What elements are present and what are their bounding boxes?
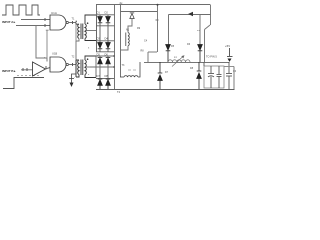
wire gate1 output bbox=[69, 22, 76, 24]
winding bottom lead bbox=[120, 46, 128, 50]
waveform input A bbox=[2, 5, 40, 15]
svg-text:INPUT B ▸: INPUT B ▸ bbox=[2, 69, 16, 73]
main output line y62 bbox=[144, 62, 230, 64]
vertical x168 bbox=[168, 15, 170, 48]
buffer output wire bbox=[46, 68, 51, 70]
wire y12 bbox=[121, 11, 158, 13]
top rail right corner bbox=[210, 5, 212, 26]
vertical x204 top bbox=[203, 62, 205, 66]
diode D11 bbox=[98, 58, 103, 64]
T2 center tap stub bbox=[87, 66, 97, 68]
rail x96 bbox=[96, 15, 98, 52]
T2 pin dots bbox=[76, 63, 77, 64]
row2 lower stubs bbox=[100, 49, 108, 52]
cap C2 bbox=[217, 66, 222, 88]
right edge vertical bbox=[233, 67, 235, 90]
transformer T1 bbox=[76, 15, 96, 41]
tick atop x47 wire bbox=[46, 29, 49, 31]
vertical x200 bbox=[199, 15, 201, 48]
T2 phasing dot bbox=[87, 58, 89, 60]
bottom bridge wires row1 bbox=[90, 56, 114, 79]
bridge lower wire bbox=[96, 51, 115, 53]
U1B output bubble bbox=[66, 63, 68, 65]
rail x204 down to box bbox=[204, 30, 206, 63]
svg-text:D8: D8 bbox=[105, 74, 109, 78]
diode D6 dark bbox=[198, 45, 203, 63]
svg-text:INPUT A ▸: INPUT A ▸ bbox=[2, 20, 16, 24]
T1 center tap stub bbox=[87, 30, 97, 32]
freewheel diode D7 bbox=[158, 62, 163, 89]
connector line right bbox=[224, 66, 234, 68]
svg-text:U1A: U1A bbox=[51, 11, 57, 15]
buffer U2 triangle bbox=[33, 62, 46, 76]
wire gate2 output bbox=[69, 64, 76, 66]
bridge mid wire bbox=[96, 25, 115, 27]
bridge wire row2 bbox=[96, 40, 115, 42]
inductor arrow bbox=[172, 56, 184, 67]
svg-text:U1B: U1B bbox=[52, 52, 57, 56]
vertical wire x47 from above bbox=[46, 30, 48, 58]
tick pin4 bbox=[72, 63, 74, 66]
bridge top wire row1 bbox=[96, 14, 115, 16]
T1 left vertical bbox=[75, 24, 77, 41]
verticals between rows bbox=[100, 26, 108, 43]
diode D14 bbox=[106, 79, 111, 89]
U1A output bubble bbox=[66, 21, 68, 23]
freewheel diode D8 bbox=[197, 62, 202, 89]
NAND gate U1A bbox=[50, 15, 66, 30]
T1 primary return wire bbox=[76, 39, 79, 75]
diode D4 bbox=[106, 43, 111, 49]
junction dot x157 top bbox=[157, 4, 159, 6]
wire input B to buffer bbox=[21, 69, 33, 71]
cap C3 bbox=[226, 62, 232, 89]
transformer T2 bbox=[76, 56, 96, 78]
rail x114 bbox=[114, 5, 116, 90]
T1 pin dots bbox=[76, 21, 77, 22]
bottom rail bbox=[96, 89, 235, 91]
svg-text:D7: D7 bbox=[97, 74, 101, 78]
top rail left stub bbox=[96, 5, 98, 16]
D1 D2 stubs row1 bbox=[100, 15, 108, 26]
junction dots x114 bbox=[113, 55, 115, 57]
svg-text:D3: D3 bbox=[97, 37, 101, 41]
diode D1 bbox=[98, 17, 103, 23]
output box bbox=[204, 66, 224, 88]
T1 phasing dot bbox=[87, 22, 89, 24]
corner jog diagonal bbox=[205, 25, 211, 30]
svg-text:D4: D4 bbox=[105, 37, 109, 41]
feedback arrow line bbox=[169, 14, 211, 16]
NAND gate U1B bbox=[50, 57, 66, 72]
waveform input B bbox=[3, 78, 44, 89]
output symbol bbox=[227, 48, 233, 62]
svg-text:D1: D1 bbox=[97, 11, 101, 15]
rail x120 bbox=[120, 5, 122, 78]
svg-text:TO PIN 5: TO PIN 5 bbox=[206, 55, 217, 59]
saturable inductor L1 bbox=[168, 60, 190, 62]
feedback winding leads bbox=[128, 19, 132, 33]
tick at gate2 input bbox=[45, 66, 47, 69]
tick on x157 bbox=[156, 19, 159, 21]
svg-text:D2: D2 bbox=[105, 11, 109, 15]
diode D12 bbox=[106, 58, 111, 64]
ground arrow bbox=[69, 74, 76, 87]
node branch wire down to lower gate bbox=[36, 26, 47, 62]
waveform B ticks bbox=[17, 75, 39, 77]
tick pin3 bbox=[72, 21, 74, 24]
wire x157 to x148 bbox=[148, 51, 157, 53]
top rail bbox=[96, 4, 210, 6]
svg-text:+5V: +5V bbox=[225, 44, 230, 48]
diode D2 bbox=[106, 17, 111, 23]
junction tick pin2 bbox=[44, 24, 46, 27]
wire into main line bbox=[147, 52, 149, 62]
input ticks bbox=[22, 68, 24, 71]
wire input A to gate pin1 bbox=[21, 19, 50, 21]
current transformer T3 coil bbox=[120, 62, 140, 77]
T3 pin marks bbox=[128, 69, 136, 71]
diode D3 bbox=[98, 43, 103, 49]
junction tick pin1 bbox=[44, 18, 46, 21]
diode D13 bbox=[98, 79, 103, 89]
wire gate pin2 bbox=[16, 25, 50, 27]
arrowhead left bbox=[188, 12, 193, 16]
feedback winding bbox=[126, 33, 129, 47]
diode D5 dark bbox=[166, 45, 171, 63]
cap C1 bbox=[208, 66, 214, 88]
diode D9 bbox=[130, 13, 134, 19]
vertical x157 bbox=[157, 5, 159, 53]
